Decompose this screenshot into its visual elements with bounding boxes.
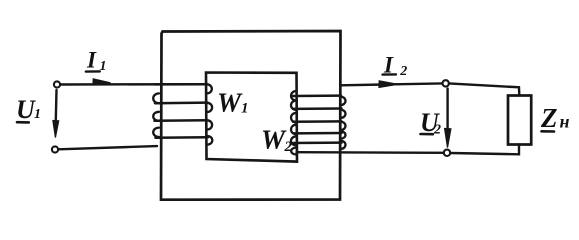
svg-text:Z: Z: [540, 103, 558, 133]
label I1: [86, 48, 107, 75]
label I2: [383, 52, 408, 79]
terminal (input top): [54, 81, 60, 87]
wire: load Zн bottom to output bottom wire: [450, 145, 519, 155]
wire: W2 top to output top terminal: [341, 83, 442, 85]
winding W2 right arcs: [340, 97, 345, 106]
svg-text:W: W: [217, 88, 243, 118]
arrow U2 (voltage, downward): [446, 89, 448, 131]
winding W1 left arcs: [153, 93, 159, 103]
svg-text:1: 1: [100, 59, 107, 74]
svg-text:I: I: [86, 48, 97, 73]
transformer core outer rectangle: [161, 31, 341, 200]
winding W1 right arcs: [207, 84, 212, 93]
winding W2 turn lines: [293, 94, 341, 97]
wire: output top terminal to load Zн: [449, 83, 519, 95]
winding W2 left arcs: [291, 91, 296, 101]
load resistor Zн: [508, 96, 531, 145]
svg-text:н: н: [560, 112, 570, 132]
label U2: [420, 108, 441, 138]
label Zн: [540, 103, 570, 133]
svg-text:2: 2: [433, 123, 441, 138]
wire: input bottom terminal to winding W1: [59, 146, 158, 149]
label W1: [217, 88, 249, 118]
svg-text:U: U: [16, 95, 36, 124]
svg-text:1: 1: [241, 101, 249, 117]
transformer core window (inner rectangle): [206, 73, 297, 162]
label W2: [261, 125, 293, 156]
winding W1 turn lines: [155, 83, 208, 86]
wire: input top terminal to winding W1: [61, 83, 208, 86]
svg-text:W: W: [261, 125, 287, 155]
wire: W2 bottom to output bottom terminal: [297, 151, 444, 154]
label U1: [16, 95, 41, 124]
terminal (output top): [443, 80, 449, 86]
svg-text:2: 2: [284, 139, 293, 155]
arrow U1 (voltage, downward): [55, 90, 58, 124]
arrowhead I1 on top input wire: [93, 79, 111, 85]
svg-text:2: 2: [399, 64, 407, 79]
arrowhead I2 on top output wire: [379, 81, 398, 88]
terminal (output bottom): [444, 150, 450, 156]
svg-text:1: 1: [34, 107, 41, 122]
terminal (input bottom): [52, 146, 58, 152]
